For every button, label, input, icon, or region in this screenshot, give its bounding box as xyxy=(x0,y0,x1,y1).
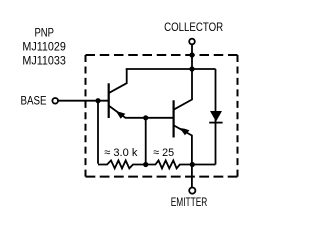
svg-text:COLLECTOR: COLLECTOR xyxy=(164,20,223,34)
svg-text:PNP: PNP xyxy=(34,25,54,39)
svg-text:≈ 3.0 k: ≈ 3.0 k xyxy=(104,147,137,159)
svg-text:MJ11033: MJ11033 xyxy=(22,53,66,67)
svg-text:MJ11029: MJ11029 xyxy=(22,39,66,53)
svg-text:BASE: BASE xyxy=(21,94,47,108)
svg-text:EMITTER: EMITTER xyxy=(171,197,208,209)
svg-text:≈ 25: ≈ 25 xyxy=(153,147,174,159)
